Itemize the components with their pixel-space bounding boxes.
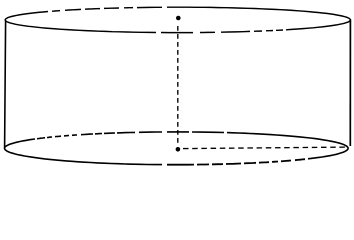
bottom ellipse dashed hidden back arc <box>37 132 250 139</box>
bottom ellipse solid right arc <box>250 134 348 159</box>
bottom ellipse solid left arc <box>5 139 163 165</box>
right wall line <box>349 19 351 146</box>
top ellipse solid left arc <box>5 12 156 33</box>
vertical dashed axis line <box>177 26 179 145</box>
bottom center dot <box>176 147 181 152</box>
bottom ellipse dashed front arc segment <box>167 159 305 165</box>
dashed radius line <box>183 147 347 149</box>
left wall line <box>5 21 6 148</box>
top center dot <box>176 16 181 21</box>
top ellipse dashed upper-back arc <box>52 7 196 11</box>
top ellipse solid right arc <box>196 7 350 30</box>
top ellipse dashed lower-front arc <box>161 30 283 33</box>
